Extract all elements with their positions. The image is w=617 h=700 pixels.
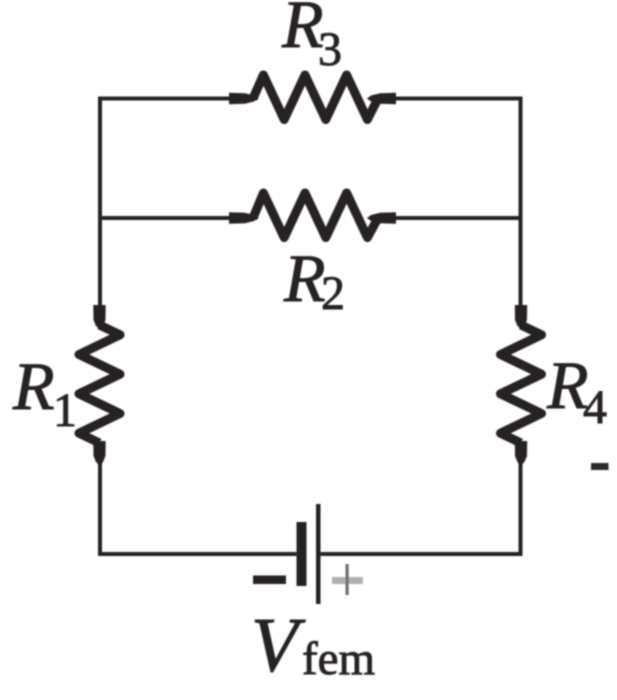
current arrow on R4 bottom (points down) [515,441,527,465]
resistor R3 zigzag [253,75,378,120]
resistor R1 zigzag [79,325,120,443]
battery plus polarity sign [332,577,363,584]
current arrow on R3 right (points left) [367,93,396,105]
svg-text:R: R [283,240,326,316]
svg-text:V: V [251,602,306,688]
current arrow on R3 left (points right) [229,93,258,105]
battery V_fem negative plate (short thick bar) [297,522,307,586]
minus sign near R4 bottom [591,463,609,470]
wire middle horizontal left of R2 [100,216,254,220]
wire bottom right segment [319,552,523,556]
svg-text:1: 1 [53,384,77,437]
wire middle horizontal right of R2 [377,216,521,220]
current arrow on R1 top (points down) [93,305,105,329]
wire top horizontal right of R3 [377,97,523,101]
current arrow on R1 bottom (points down) [93,441,105,465]
svg-text:2: 2 [321,267,345,320]
wire left vertical lower [98,444,102,556]
battery minus polarity sign [253,576,286,585]
wire right vertical lower [519,444,523,556]
wire top horizontal left of R3 [98,97,254,101]
svg-text:fem: fem [302,633,375,685]
current arrow on R2 right (points left) [367,212,396,224]
resistor R4 zigzag [501,325,542,443]
wire bottom left segment [98,552,298,556]
svg-text:4: 4 [583,381,607,434]
current arrow on R4 top (points down) [515,305,527,329]
svg-text:3: 3 [318,23,342,76]
svg-text:R: R [12,348,55,424]
resistor R2 zigzag [253,193,378,238]
wire right vertical upper [519,97,523,325]
wire left vertical upper [98,97,102,325]
battery V_fem positive plate (long thin bar) [316,504,321,604]
current arrow on R2 left (points right) [229,212,258,224]
